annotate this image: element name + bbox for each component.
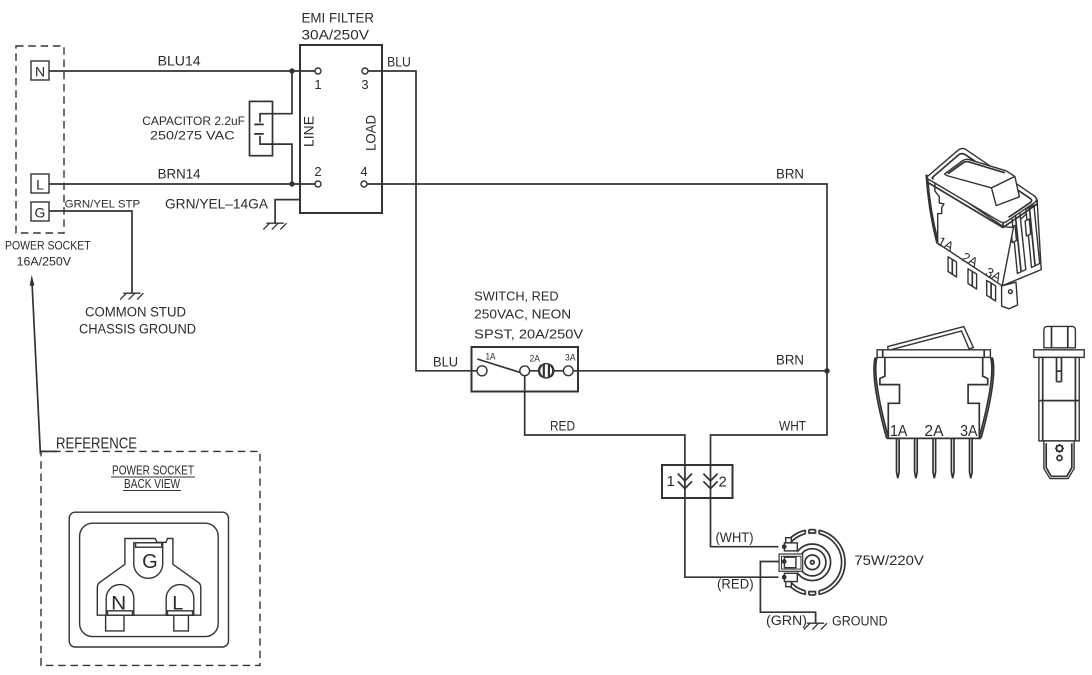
wire BLU (EMI pin 3 to switch 1A) (368, 71, 477, 371)
switch box (472, 347, 579, 392)
svg-text:1A: 1A (890, 423, 908, 440)
svg-text:BRN: BRN (776, 353, 804, 368)
motor terminal top (784, 543, 797, 551)
switch blade (477, 359, 519, 372)
SECTION: rocker switch 3D view (926, 148, 1041, 308)
svg-text:N: N (111, 593, 126, 615)
svg-text:SWITCH, RED: SWITCH, RED (474, 289, 558, 304)
lamp sun icon (1055, 444, 1064, 453)
connector pin 2 chevrons (703, 474, 717, 489)
connector pin 1 wire through (684, 465, 686, 498)
side switch pin 5 (970, 438, 973, 478)
motor terminal middle (784, 557, 796, 568)
EMI pin 4 (361, 181, 367, 187)
svg-text:WHT: WHT (779, 419, 806, 434)
svg-text:BLU: BLU (387, 54, 411, 69)
wire GRN/YEL-14GA (EMI case to chassis) (275, 200, 300, 223)
wire BRN14 (L to EMI pin 2) (49, 183, 315, 185)
svg-text:BRN: BRN (776, 167, 804, 182)
wire RED to motor (connector pin 1 to bottom terminal) (685, 498, 781, 577)
terminal G (31, 202, 49, 221)
wire 3A to BRN bus (573, 370, 827, 372)
EMI pin 1 (315, 68, 321, 74)
svg-text:GROUND: GROUND (832, 614, 888, 629)
svg-text:BACK VIEW: BACK VIEW (124, 476, 181, 491)
neon lamp inside switch (539, 364, 553, 378)
junction dot on BLU14 (289, 68, 294, 73)
svg-text:G: G (35, 205, 46, 221)
svg-text:BLU: BLU (433, 355, 458, 370)
motor ring slots bottom (805, 590, 819, 596)
svg-text:L: L (36, 177, 44, 193)
svg-text:3A: 3A (565, 353, 576, 364)
motor inner circles (794, 544, 831, 581)
socket L pocket (166, 585, 194, 616)
lamp body (1039, 357, 1079, 441)
3D switch mounting tab with hole (1002, 282, 1018, 309)
3D switch bezel thickness (927, 178, 1037, 228)
motor terminal bottom crimp (786, 582, 792, 587)
3D switch front face (935, 180, 1014, 286)
connector pin 1 chevrons (678, 474, 692, 489)
svg-text:LOAD: LOAD (362, 115, 378, 151)
lamp flange (1034, 350, 1084, 358)
side switch stepped contour left (880, 357, 900, 438)
SECTION: rocker switch side view (874, 327, 994, 479)
svg-text:2: 2 (314, 164, 321, 179)
3D switch pin 2 (968, 269, 977, 289)
side switch pin 1 (897, 438, 900, 478)
svg-text:75W/220V: 75W/220V (854, 552, 924, 568)
wire BLU14 (N to EMI pin 1) (49, 70, 315, 72)
svg-text:16A/250V: 16A/250V (17, 254, 72, 268)
3D switch pin 1 (948, 257, 956, 277)
power socket dashed outline (16, 46, 64, 233)
junction dot on BRN14 (289, 181, 294, 186)
svg-text:2A: 2A (529, 354, 540, 365)
3D switch bezel inner opening (932, 154, 1031, 218)
socket back view outer body (69, 512, 228, 647)
socket G terminal bar (136, 543, 162, 547)
ground chassis stud (120, 293, 143, 299)
svg-text:COMMON STUD: COMMON STUD (85, 305, 186, 320)
side switch pin 4 (951, 438, 954, 478)
svg-text:L: L (172, 592, 183, 614)
3D switch body side silhouette left (926, 175, 938, 244)
socket N pocket (106, 585, 134, 616)
switch contact 3A (563, 366, 573, 376)
3D switch snap hook A (1012, 212, 1026, 274)
wire BRN (EMI pin 4 to right bus) (367, 184, 827, 371)
connector pin 2 wire through (710, 465, 712, 498)
svg-text:(WHT): (WHT) (716, 530, 754, 545)
socket N terminal bar (108, 611, 133, 615)
socket insert outline (97, 539, 201, 631)
svg-text:2: 2 (719, 474, 727, 491)
ground motor (804, 623, 827, 629)
SECTION: indicator lamp side view (1034, 326, 1084, 478)
terminal L (31, 174, 49, 193)
socket L terminal bar (168, 611, 193, 615)
svg-text:250VAC, NEON: 250VAC, NEON (474, 307, 571, 322)
wire WHT (bus to connector pin 2) (711, 371, 828, 465)
motor terminal block mask (779, 543, 798, 582)
svg-text:GRN/YEL STP: GRN/YEL STP (65, 199, 141, 211)
arrow leader to POWER SOCKET (32, 282, 40, 454)
svg-text:3: 3 (361, 77, 368, 92)
motor M1 75W/220V (780, 530, 845, 595)
side switch right wall (979, 357, 993, 438)
motor middle terminal housing (779, 554, 803, 571)
lamp cap (1044, 326, 1076, 347)
3D switch right outer silhouette (1002, 203, 1041, 286)
reference dashed box (41, 451, 260, 665)
EMI filter FL1 (300, 45, 382, 213)
socket back view inner face (80, 523, 219, 636)
svg-text:1A: 1A (486, 352, 497, 363)
svg-text:BLU14: BLU14 (158, 53, 201, 69)
svg-text:G: G (142, 551, 158, 573)
junction dot BRN/WHT (824, 368, 829, 373)
side switch pin 2 (915, 438, 918, 478)
svg-text:EMI FILTER: EMI FILTER (302, 10, 375, 26)
motor ring slots top (805, 528, 819, 534)
svg-text:250/275 VAC: 250/275 VAC (150, 128, 235, 142)
svg-text:REFERENCE: REFERENCE (56, 436, 137, 453)
side switch lever (888, 327, 974, 351)
svg-text:(GRN): (GRN) (766, 613, 807, 628)
svg-text:POWER SOCKET: POWER SOCKET (5, 239, 91, 253)
svg-text:1: 1 (314, 77, 321, 92)
svg-text:1: 1 (667, 473, 675, 490)
svg-text:N: N (35, 64, 45, 80)
wire WHT to motor (connector pin 2 to top terminal) (711, 498, 782, 547)
lamp terminal tab (1044, 441, 1074, 479)
EMI pin 2 (315, 181, 321, 187)
terminal N (31, 61, 49, 80)
wire GRN/YEL STP (G to chassis stud) (49, 211, 132, 293)
lamp hole (1057, 456, 1062, 461)
switch contact 2A (520, 366, 530, 376)
lamp center slot (1057, 357, 1062, 381)
side switch flange (877, 350, 990, 358)
svg-text:SPST, 20A/250V: SPST, 20A/250V (474, 327, 583, 342)
svg-text:RED: RED (550, 419, 575, 434)
motor terminal bottom (784, 573, 797, 581)
side switch left wall (874, 357, 888, 438)
3D switch snap hook B (1026, 205, 1040, 268)
connector J2 (662, 465, 733, 498)
motor terminal top crimp (786, 538, 792, 543)
svg-text:3A: 3A (960, 423, 978, 440)
3D switch rocker end block (992, 177, 1020, 206)
svg-text:CAPACITOR 2.2uF: CAPACITOR 2.2uF (142, 114, 245, 128)
3D switch rocker top face (945, 159, 1015, 188)
switch contact 1A (477, 366, 487, 376)
side switch stepped contour right (968, 357, 988, 438)
3D switch rocker inner edge (948, 162, 1005, 174)
svg-text:30A/250V: 30A/250V (302, 26, 370, 42)
lamp body mid line (1039, 400, 1079, 402)
EMI pin 3 (362, 68, 368, 74)
switch internal wire 2A-3A (530, 370, 564, 372)
socket G pocket (134, 543, 163, 579)
svg-text:2A: 2A (924, 423, 944, 440)
ground EMI chassis (263, 223, 286, 229)
wire GRN (middle terminal to ground) (760, 562, 815, 623)
svg-text:CHASSIS GROUND: CHASSIS GROUND (79, 322, 196, 337)
svg-text:4: 4 (360, 164, 367, 179)
side switch bottom edge (887, 437, 982, 439)
capacitor C1 2.2uF (250, 71, 293, 184)
wire RED (switch 2A to connector pin 1) (525, 376, 685, 465)
svg-text:(RED): (RED) (717, 577, 754, 592)
side switch pin 3 (933, 438, 936, 478)
svg-text:LINE: LINE (300, 116, 316, 147)
3D switch bezel top face (927, 148, 1037, 222)
svg-text:GRN/YEL–14GA: GRN/YEL–14GA (165, 195, 269, 211)
svg-text:BRN14: BRN14 (158, 166, 201, 182)
3D switch pin 3 (987, 281, 996, 302)
